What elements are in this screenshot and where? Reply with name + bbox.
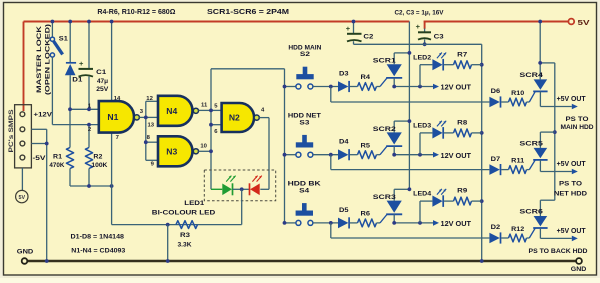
svg-text:10: 10	[200, 144, 207, 150]
svg-text:+: +	[79, 59, 84, 68]
resistor R2 100K	[88, 125, 90, 148]
op-gate N4 CD4093 NAND	[158, 96, 193, 126]
svg-text:+: +	[346, 24, 351, 33]
capacitor C2	[353, 22, 355, 34]
svg-text:+5V OUT: +5V OUT	[557, 228, 587, 235]
svg-text:LED4: LED4	[413, 191, 431, 198]
svg-text:D2: D2	[491, 224, 501, 231]
switch S1	[51, 22, 53, 38]
svg-text:D1-D8 = 1N4148: D1-D8 = 1N4148	[71, 234, 125, 241]
LED LED4	[419, 201, 421, 223]
wire 12V out line	[394, 154, 433, 156]
wire button to gate line	[313, 86, 338, 88]
resistor R6 680	[350, 222, 358, 224]
thyristor SCR1	[380, 78, 387, 86]
LED LED2	[419, 65, 421, 87]
svg-text:GND: GND	[571, 266, 587, 273]
svg-text:R5: R5	[361, 142, 371, 149]
wire 5V feed branch	[540, 62, 555, 64]
svg-text:100K: 100K	[91, 162, 107, 169]
svg-text:C2, C3 = 1μ, 16V: C2, C3 = 1μ, 16V	[395, 9, 444, 16]
wire LED return bus	[481, 44, 483, 261]
svg-text:R8: R8	[457, 120, 468, 127]
thyristor SCR6	[529, 228, 535, 238]
svg-text:N3: N3	[166, 147, 177, 157]
resistor R12 680	[501, 237, 508, 239]
op-gate N2 CD4093 NAND	[222, 103, 254, 132]
wire branch to D7	[330, 155, 332, 170]
terminal GND right	[576, 258, 582, 264]
svg-text:MASTER LOCK: MASTER LOCK	[36, 26, 43, 93]
svg-text:D3: D3	[339, 71, 349, 78]
svg-text:SCR5: SCR5	[519, 140, 543, 147]
thyristor SCR4	[529, 91, 535, 102]
svg-text:R2: R2	[93, 153, 103, 160]
svg-text:+5V OUT: +5V OUT	[557, 161, 587, 168]
wire 12V column	[408, 22, 410, 190]
svg-text:N2: N2	[229, 113, 240, 123]
svg-text:N4: N4	[166, 106, 177, 116]
wire red drop to SMPS connector pin 1	[23, 22, 25, 112]
svg-text:SCR2: SCR2	[373, 126, 397, 133]
wire N2 output to red LED	[259, 117, 269, 119]
thyristor SCR5	[529, 160, 535, 170]
svg-text:PS TO: PS TO	[566, 116, 589, 123]
svg-text:12V OUT: 12V OUT	[441, 153, 472, 160]
capacitor C3	[424, 29, 426, 32]
svg-text:D5: D5	[339, 207, 349, 214]
svg-text:D7: D7	[491, 156, 501, 163]
resistor R5 680	[350, 154, 358, 156]
wire N1 pin1 line	[70, 108, 99, 110]
resistor R1 470K	[69, 109, 71, 147]
svg-text:SCR1: SCR1	[373, 58, 397, 65]
wire R3 to ground	[166, 223, 170, 227]
svg-text:+: +	[416, 22, 421, 31]
svg-text:12V OUT: 12V OUT	[441, 85, 472, 92]
terminal GND left	[22, 258, 28, 264]
wire +5V out arrow	[540, 237, 571, 239]
svg-text:+12V: +12V	[34, 111, 53, 118]
wire 12V out line	[394, 222, 433, 224]
wire N4 N3 input bus	[145, 101, 147, 160]
LED1 red half	[233, 188, 242, 190]
terminal 5V circle annotation	[16, 190, 28, 202]
svg-text:R10: R10	[511, 90, 524, 97]
svg-text:GND: GND	[17, 248, 34, 255]
svg-text:LED1: LED1	[184, 200, 204, 207]
svg-text:SCR6: SCR6	[519, 208, 543, 215]
svg-text:LED3: LED3	[413, 123, 431, 130]
op-gate N1 CD4093 NAND	[99, 101, 134, 133]
svg-text:C2: C2	[363, 34, 374, 41]
wire +5V out arrow	[540, 106, 571, 108]
diode D2	[489, 233, 499, 244]
svg-text:D1: D1	[72, 76, 83, 83]
svg-text:C1: C1	[96, 69, 107, 76]
resistor R9 680	[454, 197, 472, 205]
svg-text:N1: N1	[107, 112, 118, 122]
svg-text:S1: S1	[59, 35, 68, 42]
svg-text:R11: R11	[511, 157, 525, 164]
diode D7	[489, 164, 499, 175]
wire N3 output to N2	[199, 150, 212, 152]
wire +5V out arrow	[540, 171, 571, 173]
svg-text:NET HDD: NET HDD	[554, 190, 587, 197]
diode D4	[338, 149, 348, 160]
svg-text:BI-COLOUR LED: BI-COLOUR LED	[152, 209, 216, 216]
svg-text:LED2: LED2	[413, 54, 431, 61]
svg-text:R3: R3	[180, 232, 191, 239]
wire N1 output	[139, 116, 145, 118]
svg-text:D6: D6	[491, 88, 501, 95]
svg-text:13: 13	[148, 123, 155, 129]
svg-text:C3: C3	[434, 34, 445, 41]
node LED1 cathode junction	[240, 187, 244, 191]
wire push-button bus	[284, 69, 286, 223]
svg-text:R12: R12	[511, 226, 524, 233]
svg-text:MAIN HDD: MAIN HDD	[561, 124, 594, 131]
svg-text:PS TO: PS TO	[559, 181, 582, 188]
svg-text:D4: D4	[339, 139, 349, 146]
svg-text:+5V OUT: +5V OUT	[557, 96, 587, 103]
thyristor SCR2	[380, 146, 387, 154]
capacitor C1 47u 25V	[88, 22, 90, 69]
wire red stub down to C3	[424, 21, 426, 29]
resistor R10 680	[501, 101, 508, 103]
svg-text:5V: 5V	[578, 18, 590, 27]
resistor R11 680	[501, 169, 508, 171]
wire connector to 5V circle	[21, 168, 23, 191]
svg-text:R7: R7	[457, 51, 468, 58]
svg-text:PS TO BACK HDD: PS TO BACK HDD	[529, 248, 588, 255]
resistor R3 3.3K	[176, 221, 198, 229]
wire SMPS pin2 to ground column	[31, 128, 46, 130]
wire 5V column to SCR4	[539, 22, 541, 80]
wire SMPS pin3 stub	[31, 143, 46, 145]
wire N2 input column and button bus feed	[210, 69, 212, 190]
svg-text:25V: 25V	[96, 86, 109, 93]
wire branch to D2	[330, 223, 332, 238]
svg-text:R6: R6	[361, 211, 371, 218]
svg-text:11: 11	[201, 102, 208, 108]
wire button to gate line	[313, 222, 338, 224]
svg-text:R1: R1	[53, 153, 63, 160]
svg-text:N1-N4 = CD4093: N1-N4 = CD4093	[71, 247, 125, 254]
svg-text:12: 12	[146, 96, 153, 102]
diode D6	[489, 97, 499, 108]
wire N1 pin 14 supply	[111, 22, 113, 102]
svg-text:SCR4: SCR4	[519, 72, 543, 79]
wire N1 pin2 junction	[87, 123, 91, 127]
svg-text:S2: S2	[300, 51, 310, 58]
svg-text:SCR3: SCR3	[373, 194, 397, 201]
wire +12V red rail left segment	[24, 21, 410, 23]
wire S1 to N1 input line	[51, 57, 53, 125]
diode D3	[338, 81, 348, 92]
svg-text:5V: 5V	[19, 195, 26, 201]
svg-text:-5V: -5V	[33, 155, 47, 162]
diode D1	[69, 22, 71, 63]
LED1 green half	[211, 188, 222, 190]
wire N4 output to N2	[199, 109, 212, 111]
junction dots on +12V rail	[51, 20, 55, 24]
resistor R4 680	[350, 86, 358, 88]
svg-text:47μ: 47μ	[97, 78, 108, 85]
LED1 dashed outline box	[204, 170, 275, 201]
svg-text:R9: R9	[457, 188, 468, 195]
wire ground rail	[25, 260, 580, 263]
svg-text:R4-R6, R10-R12 = 680Ω: R4-R6, R10-R12 = 680Ω	[97, 9, 175, 16]
svg-text:R4: R4	[361, 74, 371, 81]
resistor R8 680	[454, 129, 472, 137]
op-gate N3 CD4093 NAND	[158, 136, 193, 166]
svg-text:3.3K: 3.3K	[178, 242, 192, 249]
svg-text:12V OUT: 12V OUT	[441, 221, 472, 228]
wire button to gate line	[313, 154, 338, 156]
svg-text:SCR1-SCR6 = 2P4M: SCR1-SCR6 = 2P4M	[207, 9, 289, 16]
LED LED3	[419, 133, 421, 155]
svg-text:470K: 470K	[49, 162, 64, 169]
terminal 5V	[568, 19, 574, 25]
wire 5V red rail right segment	[424, 21, 569, 23]
thyristor SCR3	[380, 215, 387, 223]
wire N1 pin 7 ground	[111, 133, 113, 187]
svg-text:(OPEN LOCKED): (OPEN LOCKED)	[45, 24, 52, 95]
wire capacitor ground rail	[354, 43, 482, 45]
svg-text:S3: S3	[299, 119, 309, 126]
svg-text:S4: S4	[299, 188, 309, 195]
diode D5	[338, 218, 348, 229]
wire branch to D6	[330, 87, 332, 103]
connector PC's SMPS	[15, 105, 32, 168]
wire R1 R2 bottom line	[70, 185, 112, 187]
resistor R7 680	[454, 61, 472, 69]
wire 12V out line	[394, 86, 433, 88]
svg-text:PC's SMPS: PC's SMPS	[8, 109, 15, 153]
